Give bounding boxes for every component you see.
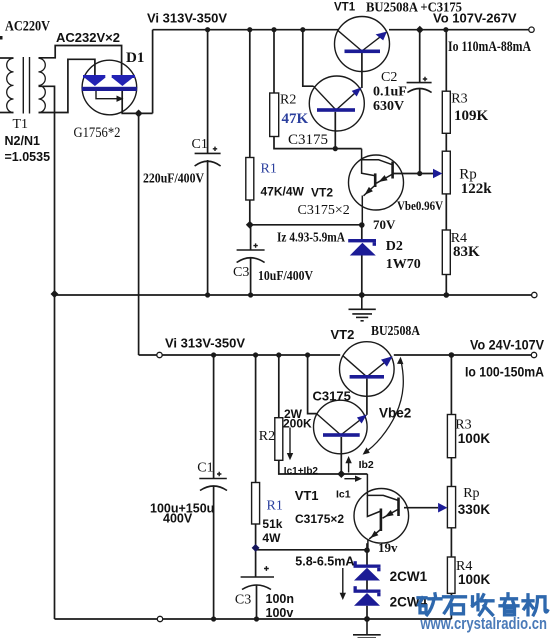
svg-text:BU2508A: BU2508A — [371, 323, 420, 338]
transformer T1 primary winding — [7, 58, 14, 112]
wire R4 bottom to mid bus — [445, 275, 447, 296]
wire Rpb to R4b — [450, 528, 452, 557]
wire R1 bottom column — [255, 355, 257, 548]
node top bus junction R1 — [247, 27, 252, 32]
op-amp VT1b error amplifier darlington circle — [354, 489, 409, 544]
svg-text:G1756*2: G1756*2 — [74, 125, 121, 141]
wire R2 bottom to VT2 collector entry — [274, 137, 362, 149]
transistor VT2b emitter arrow — [381, 356, 393, 366]
terminal Vo top plus — [529, 27, 534, 32]
svg-text:Vo 24V-107V: Vo 24V-107V — [470, 338, 544, 353]
svg-text:=1.0535: =1.0535 — [5, 150, 51, 164]
rectifier D1 right diode — [112, 75, 135, 86]
svg-text:D1: D1 — [126, 50, 144, 66]
svg-text:C3175×2: C3175×2 — [298, 203, 350, 218]
transistor VT2 Q1 emitter arrow — [379, 175, 388, 182]
rectifier D1 cathode bar — [82, 87, 137, 91]
svg-text:Vbe0.96V: Vbe0.96V — [397, 198, 444, 213]
wire zener column — [366, 543, 368, 619]
node top bus junction C3175 collector — [300, 27, 305, 32]
svg-text:R2: R2 — [259, 429, 275, 444]
tick mark left edge — [0, 36, 3, 40]
svg-text:5.8-6.5mA: 5.8-6.5mA — [295, 555, 354, 569]
svg-text:0.1uF: 0.1uF — [373, 85, 407, 100]
svg-text:2CW1: 2CW1 — [390, 569, 428, 584]
transistor C3175 top driver — [309, 76, 364, 131]
rectifier D1 output hook with arrow — [96, 91, 118, 99]
transistor VT1b internals — [367, 474, 398, 550]
svg-text:www.crystalradio.cn: www.crystalradio.cn — [420, 615, 547, 633]
svg-text:122k: 122k — [461, 181, 493, 197]
wire top Vi bus — [153, 29, 339, 31]
transistor VT2 internals — [362, 149, 393, 225]
node mid bus left diamond — [51, 290, 59, 298]
svg-text:19v: 19v — [378, 540, 398, 555]
node D1 output diamond junction — [135, 109, 143, 117]
svg-text:200K: 200K — [283, 416, 312, 430]
capacitor C3 top — [237, 250, 265, 263]
svg-text:400V: 400V — [163, 512, 193, 526]
transistor C3175 emitter arrow — [352, 87, 362, 96]
wire VT2b base — [366, 379, 368, 415]
svg-text:51k: 51k — [262, 517, 282, 531]
svg-text:330K: 330K — [458, 502, 491, 517]
svg-text:AC232V×2: AC232V×2 — [56, 30, 120, 45]
svg-text:630V: 630V — [373, 99, 404, 114]
svg-text:VT1: VT1 — [334, 2, 356, 14]
svg-text:Io 100-150mA: Io 100-150mA — [465, 365, 544, 380]
transformer T1 secondary winding — [39, 58, 46, 112]
node D2 ground junction — [359, 292, 365, 298]
wire R3 to Rp top — [445, 133, 447, 151]
svg-text:4W: 4W — [262, 531, 281, 545]
node zener bottom bus junction — [364, 616, 370, 622]
wire R4b to bottom bus — [450, 593, 452, 619]
node bottom bus junction C1b — [211, 352, 216, 357]
capacitor C3 bottom — [241, 577, 274, 590]
svg-text:Rp: Rp — [463, 486, 479, 501]
node bottom bus junction R1b — [253, 352, 258, 357]
capacitor C1 bottom — [199, 479, 227, 491]
resistor R2 top — [270, 93, 279, 137]
arrow Ic1+Ib2 down — [289, 428, 291, 455]
wire VT2 base to Rp wiper — [393, 173, 434, 175]
wire VT1b collector to Rp wiper — [404, 507, 438, 509]
wire bottom Vi bus — [139, 354, 341, 356]
svg-text:C1: C1 — [197, 461, 213, 476]
node 19v junction — [364, 547, 370, 553]
capacitor C1b plus sign — [217, 472, 221, 476]
transistor VT2 Q2 emitter arrow — [365, 187, 373, 195]
wire R3b column — [450, 355, 452, 415]
svg-text:R2: R2 — [280, 93, 296, 108]
svg-text:Vbe2: Vbe2 — [379, 406, 411, 421]
node C1b bottom bus junction — [211, 616, 216, 621]
wire C2 column — [419, 30, 421, 174]
transistor VT1b Q1 emitter arrow — [385, 510, 394, 517]
op-amp VT2 error amplifier darlington circle — [349, 155, 404, 210]
svg-text:R3: R3 — [451, 92, 467, 107]
wire R2 bottom column — [279, 355, 368, 474]
svg-text:47K: 47K — [282, 111, 309, 127]
svg-text:70V: 70V — [373, 217, 396, 232]
transistor VT2b base bar — [350, 375, 384, 379]
wire C3 bottom to bus — [256, 585, 258, 619]
transistor VT1b Q2 emitter arrow — [370, 531, 378, 538]
wire junction up to top Vi bus — [152, 30, 154, 114]
svg-text:Vo 107V-267V: Vo 107V-267V — [433, 11, 517, 26]
capacitor C1 top — [195, 153, 221, 166]
svg-text:VT2: VT2 — [331, 327, 355, 342]
arrow Iz bottom down — [342, 568, 344, 594]
transistor C3175b driver — [314, 400, 368, 454]
rectifier D1 left diode — [83, 75, 105, 86]
wire D1 output to junction — [122, 91, 152, 113]
svg-text:100n: 100n — [266, 592, 295, 606]
node C3175b base diamond — [337, 470, 345, 478]
transistor VT1 top BU2508A — [335, 17, 390, 72]
resistor R3 top — [442, 91, 450, 133]
zener diode 2CW1 — [354, 561, 381, 580]
capacitor C3b plus sign — [264, 566, 269, 571]
wire VT1 emitter to Vo terminal — [389, 29, 530, 31]
node C3 top mid bus junction — [248, 292, 253, 297]
svg-text:Vi 313V-350V: Vi 313V-350V — [147, 11, 227, 26]
capacitor C2 — [407, 83, 432, 93]
wire C3175 top collector — [303, 30, 314, 86]
svg-text:Iz 4.93-5.9mA: Iz 4.93-5.9mA — [277, 231, 346, 246]
resistor R4 top — [442, 230, 450, 275]
svg-text:47K/4W: 47K/4W — [261, 185, 305, 199]
node R1/C3 junction diamond — [246, 221, 254, 229]
wire C3175 top base — [334, 112, 336, 149]
wire VT1 base to C3175 emitter — [361, 52, 363, 88]
svg-text:109K: 109K — [454, 108, 489, 124]
node C1 top mid bus junction — [205, 292, 210, 297]
ground symbol bottom — [353, 619, 381, 638]
wire Rp to R4 top — [445, 194, 447, 230]
wire C3175b base — [340, 437, 342, 474]
node bottom bus junction C3175b — [305, 352, 310, 357]
resistor R1 top — [246, 158, 254, 201]
transformer T1 core — [23, 57, 29, 114]
svg-text:C3: C3 — [235, 593, 251, 608]
wire secondary center tap down left rail — [39, 86, 55, 619]
transistor VT1 emitter arrow — [376, 32, 387, 41]
terminal bottom Vi bus circle — [157, 352, 162, 357]
wire secondary bottom terminal to D1 left anode — [39, 59, 95, 112]
wire VT2b emitter to Vo terminal — [394, 354, 532, 356]
node bottom bus junction R2b — [276, 352, 281, 357]
wire junction down to bottom Vi bus — [138, 113, 140, 355]
zener diode D2 — [348, 239, 376, 256]
svg-text:D2: D2 — [386, 239, 403, 254]
wire bottom bus — [55, 618, 452, 620]
wire C1 top column — [207, 30, 209, 154]
svg-text:C3: C3 — [233, 265, 249, 280]
capacitor C2 plus sign — [423, 77, 427, 81]
svg-text:R1: R1 — [261, 162, 277, 177]
resistor R4 bottom — [447, 557, 455, 593]
transistor VT1 base bar — [345, 50, 381, 54]
svg-text:C3175×2: C3175×2 — [295, 512, 344, 526]
svg-text:100K: 100K — [458, 572, 491, 587]
node R3 top junction — [443, 27, 448, 32]
svg-text:N2/N1: N2/N1 — [5, 134, 40, 148]
node C2 bottom junction — [417, 171, 422, 176]
svg-text:Vi 313V-350V: Vi 313V-350V — [165, 336, 245, 351]
wire R3b to Rpb — [450, 458, 452, 487]
terminal bottom bus circle — [157, 616, 162, 621]
node R4 mid bus junction — [444, 292, 450, 298]
zener diode 2CW4 — [354, 586, 381, 606]
terminal Vo bottom — [531, 352, 536, 357]
wire C1 top to mid bus — [207, 160, 209, 295]
svg-text:R1: R1 — [267, 498, 283, 513]
svg-text:Ic1+Ib2: Ic1+Ib2 — [284, 466, 319, 477]
svg-text:220uF/400V: 220uF/400V — [143, 172, 204, 187]
svg-text:Ib2: Ib2 — [359, 459, 374, 471]
svg-text:1W70: 1W70 — [386, 257, 421, 272]
ground symbol mid — [349, 295, 376, 321]
terminal mid bus minus — [532, 292, 537, 297]
svg-text:83K: 83K — [453, 244, 480, 260]
svg-text:VT1: VT1 — [295, 488, 319, 503]
transformer T1 primary top lead — [0, 57, 14, 59]
node C2 top diamond junction — [416, 26, 424, 34]
svg-text:Ic1: Ic1 — [336, 489, 351, 501]
resistor R2 bottom — [275, 418, 283, 461]
rectifier D1 circle — [82, 60, 137, 115]
svg-text:C3175: C3175 — [313, 389, 351, 404]
potentiometer Rp bottom — [447, 487, 455, 528]
svg-text:10uF/400V: 10uF/400V — [258, 269, 313, 284]
arrow Vbe2 curved indicator — [365, 360, 404, 453]
node R2/C3175 base junction — [333, 146, 338, 151]
node R1b diamond junction — [252, 544, 260, 552]
wire R1b junction to zener node — [256, 548, 367, 577]
transistor C3175b emitter arrow — [357, 415, 367, 424]
arrow Ib2 up — [348, 462, 350, 473]
transistor VT2b BU2508A — [340, 342, 395, 397]
wire C3175b collector — [308, 355, 317, 414]
node VT2 emitter junction — [359, 222, 365, 228]
wire R2 top column — [273, 30, 275, 93]
wire VT2 emitter node horizontal — [250, 224, 362, 226]
svg-text:AC220V: AC220V — [5, 19, 50, 35]
svg-text:100K: 100K — [458, 431, 491, 446]
transistor C3175b base bar — [323, 433, 360, 437]
node C3b bottom bus junction — [254, 616, 259, 621]
potentiometer Rp top — [442, 151, 450, 194]
wire C3 top column — [250, 225, 252, 295]
wire R1 top column — [249, 30, 251, 225]
wire mid bus — [55, 294, 533, 296]
wire C1 bottom column — [213, 355, 215, 619]
svg-text:C1: C1 — [192, 137, 208, 152]
node top bus junction R2 — [271, 27, 276, 32]
capacitor C1 plus sign — [213, 147, 217, 151]
wire R3 top column — [445, 30, 447, 91]
resistor R3 bottom — [447, 415, 455, 458]
node top bus junction C1 — [205, 27, 210, 32]
potentiometer Rpb wiper arrow — [438, 503, 447, 513]
wire D2 column — [361, 225, 363, 295]
capacitor C3 plus sign — [253, 243, 257, 247]
svg-text:VT2: VT2 — [311, 186, 333, 200]
svg-text:C2: C2 — [381, 70, 397, 85]
svg-text:Io 110mA-88mA: Io 110mA-88mA — [448, 39, 531, 55]
transistor C3175 base bar — [317, 108, 355, 112]
wire secondary top terminal to D1 right anode — [39, 46, 122, 76]
potentiometer Rp top wiper arrow — [433, 169, 442, 179]
transformer T1 primary bottom lead — [0, 112, 14, 114]
svg-text:100v: 100v — [266, 606, 294, 620]
resistor R1 bottom — [252, 483, 260, 525]
watermark chinese characters kuang shi shou yin ji — [418, 594, 548, 615]
node Vo bottom junction — [449, 352, 455, 358]
svg-text:C3175: C3175 — [288, 132, 328, 148]
arrow Ic1 right — [344, 478, 356, 480]
svg-text:T1: T1 — [13, 117, 29, 132]
